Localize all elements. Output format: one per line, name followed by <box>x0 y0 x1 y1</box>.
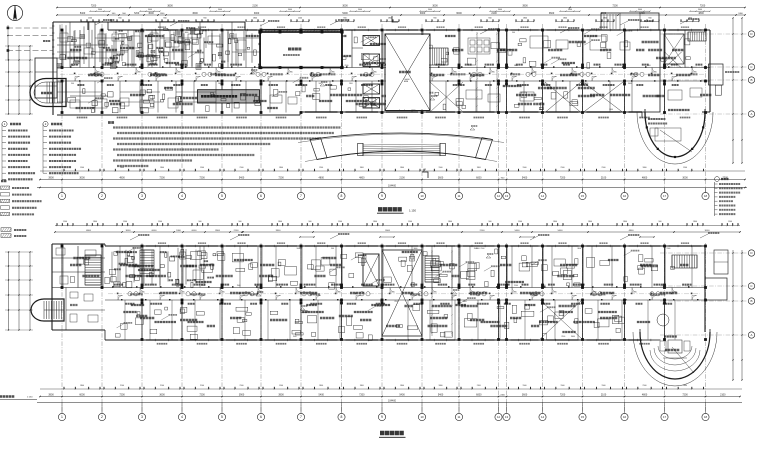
plan1 left wing room partitions <box>57 44 108 46</box>
plan2 room tag labels below bottom edge <box>157 343 168 345</box>
svg-text:3600: 3600 <box>358 9 362 11</box>
svg-text:3600: 3600 <box>522 394 528 397</box>
plan1 row bubbles right side <box>748 31 754 37</box>
column pair accents plan1 <box>141 64 144 67</box>
svg-text:1800: 1800 <box>253 18 257 20</box>
plan2 vertical grid dash-dot lines <box>61 243 63 414</box>
svg-text:1800: 1800 <box>563 18 567 20</box>
plan2 level marks small triangles <box>256 294 261 296</box>
svg-text:1500: 1500 <box>88 18 92 20</box>
svg-text:7200: 7200 <box>700 5 706 8</box>
svg-text:6000: 6000 <box>476 177 482 180</box>
plan1 rooms x108-260 top band furniture <box>112 34 124 41</box>
plan1 interior partition walls bottom band <box>61 81 63 113</box>
svg-text:3000: 3000 <box>385 230 391 232</box>
svg-text:9: 9 <box>381 415 383 419</box>
svg-text:2100: 2100 <box>345 65 349 67</box>
plan2 grid bubbles row <box>61 403 63 414</box>
plan1 extra room labels <box>578 95 595 97</box>
plan1 X room right wing mid <box>665 52 682 68</box>
svg-text:5400: 5400 <box>522 177 528 180</box>
svg-text:18: 18 <box>704 415 708 419</box>
svg-text:A: A <box>750 333 752 337</box>
svg-text:2100: 2100 <box>120 385 124 387</box>
svg-text:900: 900 <box>118 18 121 20</box>
plan1 windows on top edge <box>146 29 178 31</box>
svg-text:1800: 1800 <box>693 221 697 223</box>
svg-text:3600: 3600 <box>192 12 198 15</box>
svg-text:1800: 1800 <box>120 167 124 169</box>
plan1 room tag labels below bottom edge <box>77 117 88 119</box>
svg-text:14: 14 <box>541 415 545 419</box>
svg-text:3600: 3600 <box>438 177 444 180</box>
svg-text:1800: 1800 <box>603 18 607 20</box>
svg-text:2100: 2100 <box>647 65 651 67</box>
svg-text:900: 900 <box>659 221 662 223</box>
svg-text:4800: 4800 <box>629 230 635 232</box>
svg-text:8: 8 <box>341 415 343 419</box>
svg-text:1800: 1800 <box>623 221 627 223</box>
plan1 interior leader lines with tags <box>88 99 95 103</box>
svg-text:2100: 2100 <box>240 167 244 169</box>
svg-text:1500: 1500 <box>667 248 671 250</box>
svg-text:6000: 6000 <box>476 394 482 397</box>
plan1 left edge window ticks <box>52 25 54 27</box>
svg-text:7200: 7200 <box>199 394 205 397</box>
svg-text:5400: 5400 <box>342 12 348 15</box>
plan1 corridor circled door symbols <box>94 72 98 76</box>
svg-text:6000: 6000 <box>456 12 462 15</box>
svg-text:3600: 3600 <box>628 83 632 85</box>
plan2 room labels <box>70 264 81 267</box>
svg-text:7200: 7200 <box>359 394 365 397</box>
plan1 building outer walls <box>108 29 710 31</box>
svg-text:7200: 7200 <box>560 394 566 397</box>
svg-text:900: 900 <box>199 221 202 223</box>
plan1 corridor walls <box>57 67 710 69</box>
half-round hall interior plan1 <box>648 118 665 120</box>
plan1 extra sub-partitions left section <box>69 22 71 68</box>
entrance steps under canopy <box>358 143 446 156</box>
plan1 right dimension chains vertical <box>732 18 734 163</box>
svg-text:1500: 1500 <box>200 167 204 169</box>
svg-text:1500: 1500 <box>518 221 522 223</box>
svg-text:900: 900 <box>380 301 383 303</box>
svg-text:3000: 3000 <box>432 5 438 8</box>
svg-text:3900: 3900 <box>215 230 221 232</box>
plan1 extra furniture small marks <box>68 36 73 41</box>
svg-text:900: 900 <box>488 18 491 20</box>
svg-text:A: A <box>750 112 752 116</box>
svg-text:1:150: 1:150 <box>27 397 33 399</box>
svg-text:1800: 1800 <box>319 385 323 387</box>
plan2 right wing annex <box>705 278 727 300</box>
svg-text:3600: 3600 <box>571 336 575 338</box>
plan2 left wing partitions <box>52 257 105 259</box>
svg-text:1800: 1800 <box>477 167 481 169</box>
plan1 room name labels corridor and rooms <box>70 49 81 52</box>
plan1 dense left zone bottom band fixtures <box>147 89 152 93</box>
svg-text:3600: 3600 <box>577 248 581 250</box>
svg-text:900: 900 <box>203 18 206 20</box>
svg-text:2100: 2100 <box>601 177 607 180</box>
svg-text:3: 3 <box>141 194 143 198</box>
svg-text:3600: 3600 <box>159 394 165 397</box>
svg-text:2100: 2100 <box>160 385 164 387</box>
svg-text:1800: 1800 <box>643 167 647 169</box>
plan1 level marks small triangles <box>250 72 255 74</box>
plan1 main stair flight <box>427 48 429 65</box>
plan1 left dimension chains vertical <box>8 46 10 114</box>
svg-text:5400: 5400 <box>80 12 86 15</box>
plan2 right dimension verticals <box>732 250 734 380</box>
svg-text:2100: 2100 <box>234 230 240 232</box>
plan1 second window tick row <box>90 10 110 12</box>
svg-text:3600: 3600 <box>288 9 292 11</box>
svg-text:13: 13 <box>505 194 509 198</box>
svg-text:2100: 2100 <box>349 83 353 85</box>
left footnote legend below <box>1 180 6 183</box>
svg-text:1500: 1500 <box>602 385 606 387</box>
plan1 title text <box>378 207 402 211</box>
plan2 X room right <box>540 300 582 339</box>
svg-text:12: 12 <box>497 415 501 419</box>
svg-text:6000: 6000 <box>192 230 198 232</box>
svg-text:3600: 3600 <box>568 9 572 11</box>
svg-text:1500: 1500 <box>279 385 283 387</box>
svg-text:1800: 1800 <box>400 167 404 169</box>
svg-text:13: 13 <box>505 415 509 419</box>
plan2 windows bottom edge <box>146 339 178 341</box>
notes text block <box>108 121 114 124</box>
svg-text:1500: 1500 <box>439 167 443 169</box>
plan1 hall with heavy walls (test hall) <box>260 32 342 68</box>
svg-text:4800: 4800 <box>642 394 648 397</box>
svg-text:900: 900 <box>433 18 436 20</box>
svg-text:1800: 1800 <box>360 167 364 169</box>
svg-text:2100: 2100 <box>720 394 726 397</box>
plan2 scale label far left <box>0 395 14 398</box>
svg-text:3900: 3900 <box>239 394 245 397</box>
plan1 right wing rooms <box>659 30 661 112</box>
additional room label blobs both plans <box>296 62 318 64</box>
plan2 left wing lower rooms <box>65 288 67 331</box>
plan2 building outer walls <box>105 245 705 247</box>
svg-text:7200: 7200 <box>682 394 688 397</box>
plan2 columns <box>61 245 64 248</box>
svg-text:3900: 3900 <box>276 230 282 232</box>
svg-text:2100: 2100 <box>200 385 204 387</box>
svg-text:900: 900 <box>163 18 166 20</box>
svg-text:5400: 5400 <box>319 394 325 397</box>
svg-text:16: 16 <box>623 194 627 198</box>
plan1 corridor centre text marks <box>90 73 100 75</box>
plan1 windows on bottom edge <box>305 111 338 113</box>
svg-text:3600: 3600 <box>638 9 642 11</box>
section marker near canopy <box>422 172 428 178</box>
plan2 corridor side tag rows <box>114 284 123 286</box>
svg-text:1:150: 1:150 <box>409 209 416 213</box>
svg-text:14: 14 <box>541 194 545 198</box>
svg-text:15: 15 <box>581 194 585 198</box>
svg-text:3600: 3600 <box>98 9 102 11</box>
svg-text:1500: 1500 <box>158 221 162 223</box>
svg-text:1500: 1500 <box>683 167 687 169</box>
svg-text:3000: 3000 <box>79 177 85 180</box>
svg-text:1: 1 <box>61 194 63 198</box>
plan1 upper-left dashed leader lines <box>7 27 53 29</box>
svg-text:1800: 1800 <box>279 167 283 169</box>
svg-text:1800: 1800 <box>80 385 84 387</box>
svg-text:2100: 2100 <box>561 167 565 169</box>
svg-text:B: B <box>750 299 752 303</box>
svg-text:4800: 4800 <box>698 12 704 15</box>
svg-text:1800: 1800 <box>400 385 404 387</box>
plan1 small leader annotations <box>95 21 103 25</box>
svg-text:7200: 7200 <box>612 5 618 8</box>
svg-text:3000: 3000 <box>420 12 426 15</box>
svg-text:3000: 3000 <box>342 5 348 8</box>
svg-text:2100: 2100 <box>201 285 205 287</box>
svg-text:900: 900 <box>512 32 515 34</box>
svg-text:5400: 5400 <box>558 230 564 232</box>
svg-text:1800: 1800 <box>360 385 364 387</box>
svg-text:12: 12 <box>497 194 501 198</box>
plan2 tall X room left-center <box>382 250 422 336</box>
plan2 elevator bank <box>363 254 379 286</box>
svg-text:1500: 1500 <box>523 167 527 169</box>
plan1 extra sub-partitions bottom band <box>79 81 81 113</box>
svg-text:2100: 2100 <box>394 301 398 303</box>
svg-text:3600: 3600 <box>218 83 222 85</box>
svg-text:900: 900 <box>299 248 302 250</box>
plan2 room furniture top band <box>193 270 203 279</box>
plan2 interior partitions top band <box>61 246 63 288</box>
svg-text:2100: 2100 <box>602 167 606 169</box>
plan2 bottom dimension chains <box>40 388 742 390</box>
svg-text:2100: 2100 <box>481 248 485 250</box>
plan2 corridor centre text marks <box>130 293 143 295</box>
svg-text:3600: 3600 <box>463 301 467 303</box>
plan2 room tag labels above top edge <box>158 242 166 244</box>
svg-text:3000: 3000 <box>682 177 688 180</box>
plan2 corridor circled door symbols <box>128 292 132 296</box>
svg-text:1800: 1800 <box>388 18 392 20</box>
legend column 2 with circled index <box>43 121 48 126</box>
plan2 windows top edge <box>146 245 178 247</box>
svg-text:900: 900 <box>309 221 312 223</box>
svg-text:6: 6 <box>260 415 262 419</box>
plan1 top-right stair annex <box>601 13 659 30</box>
svg-text:1500: 1500 <box>474 248 478 250</box>
svg-text:17: 17 <box>663 415 667 419</box>
svg-text:900: 900 <box>239 221 242 223</box>
plan1 columns on grid <box>61 29 64 32</box>
plan1 top dimension chain rows <box>57 7 745 9</box>
svg-text:3600: 3600 <box>185 32 189 34</box>
upper-left legend small symbols plan2 area <box>1 228 11 232</box>
svg-text:104400: 104400 <box>388 399 397 402</box>
plan1 window dimension ticks <box>81 21 99 23</box>
plan1 interior vertical dim chains <box>476 32 478 112</box>
plan2 extra furniture small marks <box>461 272 469 279</box>
svg-text:3000: 3000 <box>126 230 132 232</box>
plan2 row bubbles right <box>748 250 754 256</box>
svg-text:3600: 3600 <box>609 109 613 111</box>
svg-text:1500: 1500 <box>561 385 565 387</box>
svg-text:2: 2 <box>101 194 103 198</box>
svg-text:1500: 1500 <box>123 221 127 223</box>
svg-text:5400: 5400 <box>515 230 521 232</box>
plan2 scattered dark door frame marks <box>112 286 114 288</box>
plan2 interior partitions bottom band <box>141 300 143 340</box>
svg-text:18: 18 <box>704 194 708 198</box>
redraw atrium clean interior <box>386 35 429 110</box>
plan2 main stair flight left <box>85 254 101 256</box>
svg-text:7200: 7200 <box>199 177 205 180</box>
svg-text:6000: 6000 <box>79 394 85 397</box>
plan1 mid-right rooms furniture <box>468 38 490 54</box>
svg-text:2: 2 <box>101 415 103 419</box>
plan1 far-left annex rooms <box>35 58 57 98</box>
svg-text:2100: 2100 <box>561 336 565 338</box>
svg-text:4800: 4800 <box>642 177 648 180</box>
svg-text:2100: 2100 <box>252 5 258 8</box>
svg-text:2100: 2100 <box>643 385 647 387</box>
plan1 vertical grid dash-dot lines <box>61 24 63 193</box>
plan1 rooms bottom band left furniture <box>70 100 80 108</box>
svg-text:17: 17 <box>663 194 667 198</box>
equipment gray rectangle <box>198 90 260 103</box>
plan2 top window dimension ticks <box>55 225 740 227</box>
plan1 atrium full-height with cross bracing <box>385 34 430 111</box>
svg-text:5400: 5400 <box>239 177 245 180</box>
svg-text:3600: 3600 <box>542 83 546 85</box>
svg-text:3900: 3900 <box>48 394 54 397</box>
svg-text:16: 16 <box>623 415 627 419</box>
svg-text:7200: 7200 <box>134 12 140 15</box>
plan2 corridor walls <box>52 287 705 289</box>
svg-text:1: 1 <box>61 415 63 419</box>
plan1 X-braced test rooms right of center <box>545 82 581 113</box>
svg-text:1500: 1500 <box>255 285 259 287</box>
svg-text:2100: 2100 <box>477 385 481 387</box>
stair 2 oval stairwell left <box>30 79 66 107</box>
svg-text:4: 4 <box>181 415 183 419</box>
plan2 half-round interior <box>650 350 700 371</box>
svg-text:7200: 7200 <box>91 5 97 8</box>
svg-text:1800: 1800 <box>278 221 282 223</box>
svg-text:3600: 3600 <box>218 9 222 11</box>
svg-text:1800: 1800 <box>439 385 443 387</box>
svg-text:900: 900 <box>71 83 74 85</box>
svg-text:5400: 5400 <box>399 394 405 397</box>
svg-text:3: 3 <box>141 415 143 419</box>
svg-text:1800: 1800 <box>373 221 377 223</box>
plan2 secondary stair <box>140 249 154 251</box>
right legend block plan1 <box>715 177 720 182</box>
svg-text:11: 11 <box>458 194 461 198</box>
svg-text:4800: 4800 <box>86 230 92 232</box>
plan2 horizontal row grid lines right side <box>660 252 749 254</box>
svg-text:900: 900 <box>331 248 334 250</box>
plan1 elevator core four shafts <box>363 36 380 46</box>
svg-text:3600: 3600 <box>428 9 432 11</box>
plan2 corridor door swings <box>118 296 123 301</box>
svg-text:10: 10 <box>420 194 424 198</box>
svg-text:7200: 7200 <box>560 177 566 180</box>
svg-text:10: 10 <box>420 415 424 419</box>
legend column 1 with circled index <box>2 121 7 126</box>
svg-text:6: 6 <box>260 194 262 198</box>
svg-text:1800: 1800 <box>553 221 557 223</box>
svg-text:3600: 3600 <box>698 9 702 11</box>
plan1 interior partition walls top band <box>61 30 63 68</box>
north arrow symbol <box>7 5 22 20</box>
svg-text:15: 15 <box>581 415 585 419</box>
svg-text:3900: 3900 <box>48 177 54 180</box>
redraw test hall clean interior <box>261 33 341 67</box>
plan1 corridor door swings and frames <box>75 77 80 82</box>
plan2 stair flight center <box>425 255 439 257</box>
svg-text:1500: 1500 <box>523 385 527 387</box>
svg-text:1800: 1800 <box>588 221 592 223</box>
svg-text:900: 900 <box>648 18 651 20</box>
plan1 bottom dimension chains <box>40 170 745 172</box>
plan2 top dimension lines <box>55 231 740 233</box>
svg-text:104400: 104400 <box>388 184 397 187</box>
svg-text:7: 7 <box>300 194 302 198</box>
canopy end caps <box>310 138 327 160</box>
plan2 room furniture bottom band <box>155 310 162 314</box>
svg-text:7200: 7200 <box>119 394 125 397</box>
half-round hall plan1 right <box>645 112 705 157</box>
svg-text:1800: 1800 <box>523 18 527 20</box>
plan1 dense left zone sub-walls and fixtures <box>59 25 61 58</box>
svg-text:4800: 4800 <box>119 177 125 180</box>
svg-text:2100: 2100 <box>491 12 497 15</box>
svg-text:3000: 3000 <box>705 230 711 232</box>
svg-text:1800: 1800 <box>448 221 452 223</box>
corridor centre dash-dot lines <box>60 73 705 75</box>
svg-text:1500: 1500 <box>408 221 412 223</box>
svg-text:7200: 7200 <box>159 177 165 180</box>
svg-text:2100: 2100 <box>514 285 518 287</box>
svg-text:1500: 1500 <box>293 336 297 338</box>
svg-text:2100: 2100 <box>399 177 405 180</box>
svg-text:3600: 3600 <box>498 9 502 11</box>
plan1 entrance hall marks <box>398 92 408 96</box>
svg-text:B: B <box>750 78 752 82</box>
plan2 left dimension verticals <box>8 252 10 330</box>
svg-text:4: 4 <box>181 194 183 198</box>
plan2 title text <box>380 431 404 435</box>
svg-text:1500: 1500 <box>237 285 241 287</box>
plan1 horizontal row grid lines right side <box>660 33 749 35</box>
svg-text:2100: 2100 <box>601 394 607 397</box>
plan1 room tag labels above top edge <box>158 26 166 28</box>
svg-text:5: 5 <box>221 194 223 198</box>
svg-text:3900: 3900 <box>278 394 284 397</box>
plan2 round feature circle <box>657 314 669 326</box>
plan2 extra sub-partitions <box>119 246 121 288</box>
svg-text:3600: 3600 <box>167 5 173 8</box>
svg-text:4800: 4800 <box>359 177 365 180</box>
svg-text:2100: 2100 <box>319 167 323 169</box>
svg-text:3000: 3000 <box>148 12 154 15</box>
plan2 half-round hall bottom right <box>640 332 710 379</box>
svg-text:1800: 1800 <box>160 167 164 169</box>
